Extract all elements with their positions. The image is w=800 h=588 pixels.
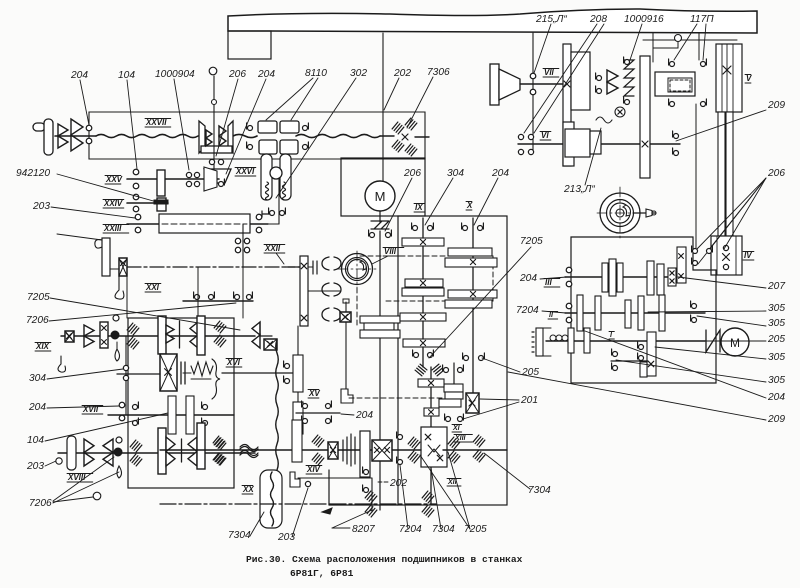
leader 209 rt xyxy=(676,110,766,141)
gear on vertical shaft lower xyxy=(293,402,303,434)
gear cluster III b xyxy=(647,261,654,295)
svg-text:201: 201 xyxy=(520,395,538,406)
leader 7204 ml xyxy=(542,311,566,313)
leader 302 xyxy=(276,78,356,198)
bevel gear on XXV xyxy=(204,167,217,191)
shaft I line xyxy=(546,340,705,342)
bearing glyphs IV bottom xyxy=(693,249,698,254)
leaders 201 xyxy=(480,399,519,400)
gears on II xyxy=(577,295,583,331)
leader 7205 left xyxy=(50,298,240,330)
roller bearings on screw b xyxy=(422,491,434,503)
svg-text:305: 305 xyxy=(768,318,785,329)
handle at far left xyxy=(33,123,45,131)
teardrop lever on XIX xyxy=(115,349,120,361)
leader XXII xyxy=(276,253,284,264)
telescopic tube XX xyxy=(260,470,282,528)
bearing block with x on XXII xyxy=(119,258,127,276)
feed gearbox outline xyxy=(571,237,716,383)
gear 3 on IX xyxy=(402,288,444,296)
short shaft below XXII xyxy=(183,300,253,302)
leader 204 xyxy=(80,80,89,125)
gear B on XII xyxy=(424,408,439,416)
leader 203 lower xyxy=(45,461,56,466)
shaft XXIII line xyxy=(127,223,268,225)
spring clutch on XVI xyxy=(191,362,213,376)
svg-text:XXV: XXV xyxy=(105,175,123,184)
x marks on clutch column xyxy=(301,263,307,269)
spindle VIII bore xyxy=(348,260,367,279)
bearing glyphs XV xyxy=(303,404,308,409)
gear 8110 right xyxy=(280,121,299,133)
bevel gearbox on XII xyxy=(421,427,447,467)
spring under right pill xyxy=(283,182,286,200)
leader VIII xyxy=(372,256,388,264)
motor housing box xyxy=(341,158,425,216)
bearing glyphs below bevel XXVI xyxy=(209,182,214,187)
left gearbox outline xyxy=(128,318,234,488)
svg-text:6Р81Г, 6Р81: 6Р81Г, 6Р81 xyxy=(290,568,354,579)
svg-text:204: 204 xyxy=(491,168,509,179)
svg-text:VII: VII xyxy=(544,68,555,77)
svg-text:215„Л“: 215„Л“ xyxy=(535,14,567,25)
vertical link XXII to box left xyxy=(126,267,128,318)
svg-text:202: 202 xyxy=(389,478,407,489)
svg-text:X: X xyxy=(466,201,473,210)
bracket below pills xyxy=(262,211,270,217)
leader 202 top xyxy=(384,78,399,110)
bearing pair II left xyxy=(566,303,572,309)
gear 2 on X xyxy=(445,258,497,267)
vertical gear with x on I xyxy=(647,332,656,376)
svg-text:8207: 8207 xyxy=(352,524,375,535)
svg-text:VIII: VIII xyxy=(384,247,397,256)
leader 202 bottom xyxy=(378,481,388,483)
gears on I xyxy=(568,328,574,353)
cone clutch on XIV xyxy=(342,440,344,461)
bearing pair XVI right xyxy=(285,364,290,369)
vertical drop from beam to motor xyxy=(382,33,384,181)
bearing 204 pair left of shaft XXVII xyxy=(86,125,92,131)
roller bearings XIII a xyxy=(408,437,420,449)
wall bracket at I left xyxy=(536,328,543,356)
svg-text:104: 104 xyxy=(118,70,135,81)
bearing glyphs XI bottom xyxy=(446,417,451,422)
bevel gear XXVI xyxy=(204,169,231,183)
motor shaft stem xyxy=(379,211,381,222)
svg-text:VI: VI xyxy=(541,131,549,140)
svg-text:XIX: XIX xyxy=(35,342,50,351)
clutch ball on XIX xyxy=(111,331,119,339)
wavy line inside tube xyxy=(271,472,274,526)
thin rod to bracket xyxy=(57,234,102,240)
leader 305 d xyxy=(616,360,766,382)
bearing glyphs IX bottom xyxy=(414,353,419,358)
svg-text:XV: XV xyxy=(308,389,320,398)
bearing pairs VI left xyxy=(518,134,523,139)
svg-text:942120: 942120 xyxy=(16,168,50,179)
bearing on XXIV xyxy=(133,194,139,200)
leader 204 XV xyxy=(341,414,354,415)
vertical link to gearbox b xyxy=(242,267,244,318)
leaders 117P xyxy=(674,24,697,60)
bearing circle under XIV xyxy=(305,481,310,486)
bearing pair on XXV xyxy=(133,169,139,175)
svg-text:IV: IV xyxy=(744,251,752,260)
vertical shaft right of gearbox xyxy=(297,326,299,450)
leader 203 xyxy=(51,207,135,218)
svg-text:7206: 7206 xyxy=(29,498,52,509)
hook below XXII xyxy=(115,276,124,299)
shaft XXVII wavy section xyxy=(96,134,198,137)
shaft VII line xyxy=(520,83,564,85)
spindle nose crosshair xyxy=(597,212,645,214)
vertical link to bottom shaft xyxy=(371,478,373,512)
gear block with x on XIX xyxy=(65,331,74,342)
direction arrow on screw xyxy=(322,508,332,514)
main motor M circle xyxy=(365,181,395,211)
cone gears inside box top xyxy=(158,316,166,354)
roller bearings on XIX right xyxy=(127,323,139,335)
bearing glyphs XVII right xyxy=(203,405,208,410)
leader 305 b xyxy=(697,316,766,326)
pill below 8110 left xyxy=(261,154,272,200)
svg-text:305: 305 xyxy=(768,375,785,386)
vertical drop beam to shaft VI xyxy=(532,33,534,152)
leaders 7205 bottom xyxy=(420,455,470,529)
aux shaft under I xyxy=(611,360,648,362)
double bearing box on XIV xyxy=(372,440,392,461)
gear A on XII xyxy=(418,379,444,387)
link line under XIV xyxy=(298,477,372,479)
spindle nose inner circle xyxy=(607,200,634,227)
bearing glyphs X mid xyxy=(464,356,469,361)
svg-text:204: 204 xyxy=(257,69,275,80)
bearing pair below shifter xyxy=(209,159,214,164)
svg-text:305: 305 xyxy=(768,303,785,314)
selector vertical rod xyxy=(345,322,347,389)
gear triangles on shaft XXVII xyxy=(71,119,83,135)
shaft VI line xyxy=(518,143,680,145)
svg-text:206: 206 xyxy=(767,168,785,179)
shaft IX line xyxy=(422,218,424,367)
cone pulley xyxy=(499,69,520,100)
dash-dot feed shaft into column xyxy=(285,266,300,268)
clutch column rect xyxy=(300,256,308,326)
bracket under XIV xyxy=(290,472,300,487)
leader 7304 bl xyxy=(250,512,264,536)
link bracket to block xyxy=(110,268,119,270)
shaft XXII dash-dot line xyxy=(127,266,300,268)
motor vertical shaft xyxy=(379,231,381,510)
gear 3 on X xyxy=(448,290,497,298)
dashed route vertical xyxy=(492,256,494,301)
shaft XVI line xyxy=(222,372,298,374)
svg-text:IX: IX xyxy=(415,203,423,212)
gear box with x on X xyxy=(466,393,479,413)
leader 7204 bottom xyxy=(400,465,408,529)
bearing glyphs on drop xyxy=(364,470,369,475)
svg-text:202: 202 xyxy=(393,68,411,79)
shaft II line xyxy=(565,312,705,314)
gear stack XI xyxy=(444,384,463,392)
gear steps on VI xyxy=(565,129,590,157)
shaft XIX line xyxy=(61,335,255,337)
svg-text:7206: 7206 xyxy=(26,315,49,326)
overarm beam outline xyxy=(228,9,757,33)
dashed gear route lower xyxy=(386,300,493,302)
svg-text:304: 304 xyxy=(29,373,46,384)
bearing pair XXIII left xyxy=(135,214,141,220)
shaft XIV line xyxy=(160,449,421,451)
selector stem xyxy=(345,302,347,312)
support bracket left of XXII xyxy=(102,238,110,276)
leader 203 bottom xyxy=(292,488,308,537)
gear on XXV xyxy=(157,170,165,196)
spring under left pill xyxy=(266,182,269,200)
bearing box with x on XIV xyxy=(328,442,338,459)
leader 204 left xyxy=(47,406,119,408)
cone pulley flange xyxy=(490,64,499,105)
bearing glyphs IX top xyxy=(413,226,418,231)
roller bearings XIV far left xyxy=(213,436,225,448)
svg-text:209: 209 xyxy=(767,414,785,425)
bearing cluster 7205 above XXII xyxy=(235,238,240,243)
svg-text:205: 205 xyxy=(767,334,785,345)
feed motor coupling N xyxy=(706,330,720,352)
gear 1 on IX xyxy=(402,238,444,246)
bearing glyphs II right xyxy=(692,304,697,309)
svg-text:7306: 7306 xyxy=(427,67,450,78)
clutch plates H on XVI xyxy=(180,362,182,384)
svg-text:XXI: XXI xyxy=(145,283,160,292)
bearing glyphs X top xyxy=(463,226,468,231)
leader 104 xyxy=(127,80,137,169)
leader 1000916 xyxy=(630,24,642,60)
gear plate wide on VII xyxy=(571,52,590,110)
gear on vertical shaft upper xyxy=(293,355,303,392)
leader 206 center xyxy=(385,178,412,231)
leader 209 rb xyxy=(508,372,766,420)
svg-text:7205: 7205 xyxy=(27,292,50,303)
vertical link above feed box xyxy=(695,104,697,248)
svg-text:204: 204 xyxy=(519,273,537,284)
svg-text:8110: 8110 xyxy=(305,68,327,79)
teardrop lever on XVIII xyxy=(117,466,122,478)
shaft X line xyxy=(472,218,474,395)
selector L block xyxy=(341,389,353,403)
svg-text:209: 209 xyxy=(767,100,785,111)
leaders 7206 bottom xyxy=(53,497,93,502)
leader 104 left xyxy=(45,413,168,441)
dog clutch C pair 1 xyxy=(322,257,329,270)
input flange pill on shaft XXVII xyxy=(44,119,53,155)
gears on XVII xyxy=(168,396,176,434)
link from XXIII to ball handle xyxy=(278,178,280,224)
hook hanger on XIX xyxy=(58,356,66,372)
gearbox lower-left edge xyxy=(329,504,398,506)
spindle nose profile xyxy=(610,203,630,223)
leader 204 right xyxy=(585,331,766,398)
svg-text:302: 302 xyxy=(350,68,367,79)
shaft XVIII line xyxy=(58,452,255,454)
svg-text:213„Л“: 213„Л“ xyxy=(563,184,595,195)
svg-text:207: 207 xyxy=(767,281,785,292)
belt bearing glyphs xyxy=(370,233,375,238)
svg-text:203: 203 xyxy=(32,201,50,212)
zigzag gear 1000916 xyxy=(624,60,634,96)
bevel gear at XVI riser xyxy=(252,322,260,335)
wave break on XVIII xyxy=(240,447,258,452)
svg-text:XXII: XXII xyxy=(264,244,281,253)
svg-text:206: 206 xyxy=(228,69,246,80)
leader 7306 xyxy=(407,77,433,128)
thrust bearing 942120 xyxy=(154,200,168,204)
clutch ball on XVIII xyxy=(114,448,122,456)
lower plate on VI xyxy=(563,122,574,166)
vertical link XXIII to XXII xyxy=(242,224,244,267)
leader 205 mid xyxy=(482,358,520,372)
roller bearings XVIII left xyxy=(130,440,142,452)
svg-text:1000904: 1000904 xyxy=(155,69,195,80)
hook on bracket xyxy=(95,240,102,249)
leader 8207 xyxy=(332,527,350,529)
x mark on IV nut xyxy=(723,254,730,261)
selector box with x xyxy=(340,312,351,322)
bearing 7306 roller set at right end of XXVII xyxy=(392,122,404,134)
svg-text:Рис.30. Схема расположения под: Рис.30. Схема расположения подшипников в… xyxy=(246,554,523,565)
leader 304 xyxy=(47,369,123,379)
leader 305 c xyxy=(655,347,766,359)
bearing glyphs flanking 8110 xyxy=(248,126,253,131)
bearing pair VII xyxy=(530,73,536,79)
leader 305 a xyxy=(648,311,766,312)
bearings on vertical shaft xyxy=(123,365,128,370)
ball handle between pills xyxy=(270,167,282,179)
link line in column xyxy=(308,290,340,292)
leader 213L xyxy=(585,128,601,185)
svg-text:305: 305 xyxy=(768,352,785,363)
bearing glyphs I right xyxy=(639,345,644,350)
pill below 8110 right xyxy=(280,154,291,200)
gear 2 on IX xyxy=(405,279,443,287)
frame around shaft XXVII xyxy=(89,112,425,159)
cone clutch triangles on shaft XXVII xyxy=(58,124,68,136)
leader 215L xyxy=(534,24,551,73)
bearing glyphs on short shaft xyxy=(195,295,200,300)
roller bearings on screw a xyxy=(365,491,377,503)
roller bearings XVIII right xyxy=(214,438,226,450)
bearing glyphs above and below zigzag xyxy=(625,60,630,65)
svg-text:V: V xyxy=(746,74,752,83)
svg-text:7304: 7304 xyxy=(228,530,251,541)
vertical link to gearbox a xyxy=(197,267,199,318)
gear on IV bottom xyxy=(677,247,686,283)
leadscrew barrel on XXIII xyxy=(159,214,250,233)
speed gearbox outline xyxy=(398,216,507,505)
gear 4 on X xyxy=(445,300,492,308)
notch detail on VI xyxy=(596,117,612,123)
gear 5 on IX xyxy=(403,339,445,347)
svg-text:204: 204 xyxy=(355,410,373,421)
bearing glyphs on shaft VII right xyxy=(597,76,602,81)
bracket bars right of column xyxy=(312,261,314,274)
shaft XVI gearblock with x xyxy=(160,354,177,391)
oiler pipe top right xyxy=(675,35,682,42)
spindle nose center xyxy=(616,209,624,217)
svg-text:7304: 7304 xyxy=(528,485,551,496)
roller bearing pair in box xyxy=(214,321,226,333)
flange pill XVIII left xyxy=(67,436,76,470)
leader 204b xyxy=(226,79,266,174)
bearing glyphs XI top xyxy=(444,368,449,373)
knob above clutch XVIII xyxy=(116,437,122,443)
x mark on V nut xyxy=(723,66,731,74)
bearing glyphs around clutch xyxy=(670,62,675,67)
leader 1000904 xyxy=(174,79,189,170)
gear 4 on IX xyxy=(400,313,446,321)
circle end XVIII xyxy=(56,458,62,464)
svg-text:XIV: XIV xyxy=(306,465,321,474)
gear shifter trough on XXVII xyxy=(199,121,205,153)
leader 7205 mid xyxy=(429,247,531,358)
svg-text:7205: 7205 xyxy=(520,236,543,247)
feed motor M circle xyxy=(721,328,749,356)
leader 8110 a xyxy=(266,78,313,120)
svg-text:M: M xyxy=(730,336,740,350)
bull gear stack under spindle xyxy=(360,316,400,323)
gear cluster III a xyxy=(602,263,608,292)
leader 7304 right xyxy=(484,453,530,489)
bearing glyphs XIV right xyxy=(398,435,403,440)
spindle nose outer circle xyxy=(600,193,640,233)
bearing cluster 1000904 on XXV xyxy=(186,172,191,177)
bearing pair XXIII right xyxy=(256,214,262,220)
bearing pair XVII xyxy=(119,402,125,408)
svg-text:XI: XI xyxy=(452,425,461,432)
leaders 206 right xyxy=(696,178,766,250)
leader 7206 upper xyxy=(49,303,236,321)
triangle clutch on VI xyxy=(607,70,618,82)
shaft XI line xyxy=(453,363,455,399)
bearing pair III left xyxy=(566,267,572,273)
svg-text:XX: XX xyxy=(242,485,254,494)
ballscrew IV nut housing xyxy=(711,236,742,275)
shaft XVII line xyxy=(108,414,234,416)
clutch housing with dashed insert xyxy=(655,72,695,96)
v-belt zigzag xyxy=(371,221,389,229)
leader circle 7206 xyxy=(93,492,101,500)
svg-text:206: 206 xyxy=(403,168,421,179)
svg-text:XXVI: XXVI xyxy=(235,167,255,176)
leader 205 right xyxy=(702,340,766,342)
bearing glyphs VI right xyxy=(674,134,679,139)
beam ledge line right xyxy=(643,39,737,41)
dog clutch C pair 2 xyxy=(322,283,329,296)
roller bearings XIV a xyxy=(312,435,324,447)
svg-text:117П: 117П xyxy=(690,14,714,25)
cone clutch triangles on XIX xyxy=(84,325,94,336)
table screw line xyxy=(160,503,330,505)
ballscrew V nut housing xyxy=(716,44,742,112)
vertical wavy shaft to XX xyxy=(276,340,279,470)
pin circle on VI xyxy=(615,107,625,117)
dashed selector line xyxy=(349,397,445,399)
svg-text:III: III xyxy=(545,278,552,287)
gear on XIV xyxy=(360,431,370,477)
svg-text:104: 104 xyxy=(27,435,44,446)
knob above clutch XIX xyxy=(113,315,119,321)
